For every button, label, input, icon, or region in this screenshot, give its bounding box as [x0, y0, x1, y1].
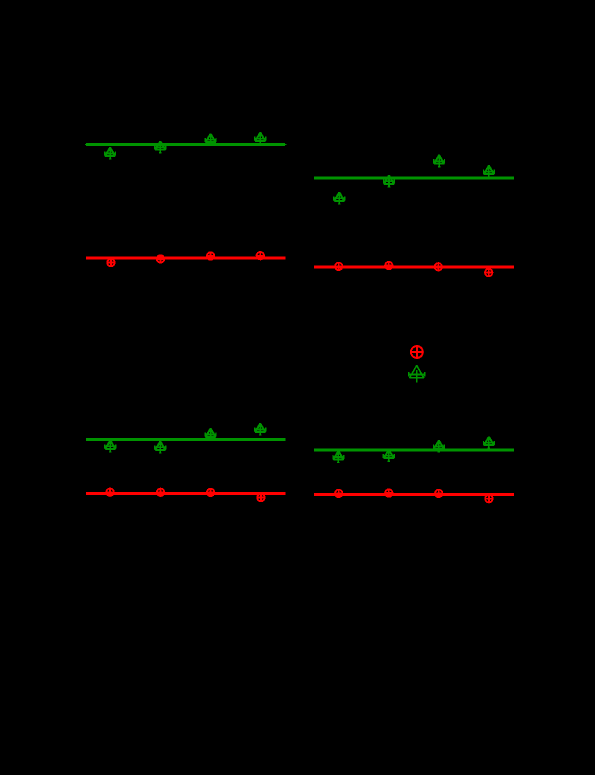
top-left red fit line	[86, 257, 286, 260]
bottom-right red fit line	[314, 493, 514, 496]
bottom-right green point 3	[434, 441, 445, 453]
bottom-left green point 2	[155, 441, 166, 453]
bottom-right green fit line	[314, 448, 514, 451]
bottom-right green point 2	[383, 450, 394, 462]
top-left green point 3	[205, 134, 216, 146]
bottom-right red point 3	[435, 490, 443, 498]
top-left red point 2	[157, 255, 165, 263]
top-left green fit line	[85, 143, 286, 145]
bottom-left green point 3	[205, 429, 216, 441]
bottom-left green point 1	[105, 440, 116, 452]
top-left green point 4	[255, 133, 266, 145]
bottom-right red point 1	[335, 490, 343, 498]
legend red marker	[411, 346, 423, 358]
legend green marker	[409, 366, 425, 383]
bottom-right red point 2	[385, 489, 393, 497]
top-left red point 4	[257, 252, 265, 260]
top-right green point 1	[334, 192, 345, 204]
bottom-left red point 1	[106, 488, 114, 496]
top-right green point 2	[384, 175, 395, 187]
bottom-left red point 3	[207, 489, 215, 497]
top-left green point 2	[155, 141, 166, 153]
top-right green point 3	[434, 155, 445, 167]
bottom-left red point 2	[157, 489, 165, 497]
bottom-right green point 4	[484, 437, 495, 449]
top-left green point 1	[105, 148, 116, 160]
bottom-right red point 4	[485, 495, 493, 503]
top-left red point 1	[107, 259, 115, 267]
top-right red point 3	[435, 263, 443, 271]
top-right green fit line	[314, 177, 514, 180]
top-left red point 3	[207, 252, 215, 260]
bottom-left red point 4	[257, 494, 265, 502]
top-right red point 1	[335, 263, 343, 271]
bottom-left green fit line	[86, 438, 286, 441]
bottom-right green point 1	[333, 451, 344, 463]
top-right red fit line	[314, 266, 514, 269]
bottom-left green point 4	[255, 424, 266, 436]
top-right red point 4	[485, 269, 493, 277]
top-right green point 4	[484, 166, 495, 178]
top-right red point 2	[385, 262, 393, 270]
bottom-left red fit line	[86, 492, 286, 495]
